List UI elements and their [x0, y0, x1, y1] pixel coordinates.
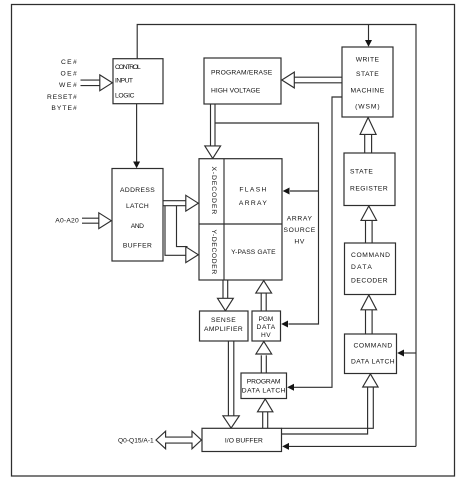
svg-text:LOGIC: LOGIC: [115, 92, 135, 99]
block: PGM DATA HV: [252, 311, 281, 341]
svg-text:X-DECODER: X-DECODER: [210, 167, 217, 215]
block: CONTROL INPUT LOGIC: [113, 59, 163, 104]
svg-text:AND: AND: [131, 223, 145, 230]
block: STATE REGISTER: [344, 153, 395, 206]
bidirectional data bus arrow at I/O BUFFER left: [156, 431, 201, 449]
svg-text:AMPLIFIER: AMPLIFIER: [204, 326, 243, 333]
arrow into PGM DATA HV right edge: [281, 321, 288, 328]
bus arrow I/O BUFFER up to PROGRAM DATA LATCH: [262, 412, 264, 429]
block: WRITE STATE MACHINE (WSM): [342, 47, 393, 117]
bus arrow WSM to PROGRAM/ERASE HIGH VOLTAGE: [294, 76, 342, 78]
input arrow A0-A20 into ADDRESS LATCH: [82, 217, 100, 219]
svg-text:LATCH: LATCH: [126, 203, 149, 210]
junction arrow into FLASH ARRAY right edge: [290, 190, 319, 192]
bus arrow PROGRAM DATA LATCH up to PGM DATA HV: [260, 355, 262, 373]
svg-text:INPUT: INPUT: [115, 77, 133, 84]
svg-text:FLASH: FLASH: [239, 186, 266, 193]
bus arrow COMMAND DATA LATCH up to COMMAND DATA DECODER: [365, 310, 367, 334]
svg-text:CE#: CE#: [61, 59, 77, 66]
wire: branch down into WSM top: [368, 25, 370, 42]
svg-text:Q0-Q15/A-1: Q0-Q15/A-1: [118, 437, 154, 444]
block: COMMAND DATA LATCH: [345, 334, 397, 374]
wire: PROGRAM/ERASE HV branch to FLASH ARRAY and PGM DATA HV: [215, 123, 319, 324]
svg-text:REGISTER: REGISTER: [350, 185, 388, 192]
svg-text:DATA LATCH: DATA LATCH: [242, 388, 286, 395]
wire: arrow into I/O BUFFER right edge: [288, 445, 416, 447]
block: decoder/array grid outer: [199, 159, 282, 280]
bus SENSE AMPLIFIER down to I/O BUFFER: [227, 341, 229, 416]
svg-text:PROGRAM: PROGRAM: [247, 378, 281, 385]
svg-text:DATA: DATA: [257, 324, 276, 331]
bus arrow COMMAND DATA DECODER up to STATE REGISTER: [365, 220, 367, 243]
bus arrow Y-PASS GATE down to SENSE AMPLIFIER: [222, 280, 224, 299]
svg-text:ARRAY: ARRAY: [239, 200, 267, 207]
svg-text:HIGH VOLTAGE: HIGH VOLTAGE: [211, 87, 261, 94]
svg-text:DECODER: DECODER: [351, 278, 388, 285]
svg-text:COMMAND: COMMAND: [354, 343, 393, 350]
bus arrow ADDRESS LATCH to X-DECODER: [163, 200, 187, 202]
block: PROGRAM DATA LATCH: [241, 373, 287, 399]
bus arrow PROGRAM/ERASE HV down to X-DECODER: [210, 104, 212, 146]
wire: WSM left side down to PROGRAM DATA LATCH: [294, 97, 342, 387]
bus arrow PGM DATA HV up to Y-PASS GATE: [260, 293, 262, 311]
block: PROGRAM/ERASE HIGH VOLTAGE: [204, 58, 281, 104]
bus arrow I/O BUFFER right and up to COMMAND DATA LATCH: [282, 387, 374, 428]
svg-text:PGM: PGM: [259, 316, 274, 323]
svg-text:ARRAY: ARRAY: [287, 215, 313, 222]
wire: CONTROL INPUT LOGIC to ADDRESS LATCH: [136, 104, 138, 163]
svg-text:MACHINE: MACHINE: [351, 88, 385, 95]
wire: branch arrow into COMMAND DATA LATCH right edge: [403, 352, 416, 354]
svg-text:HV: HV: [294, 239, 304, 246]
svg-text:ADDRESS: ADDRESS: [120, 187, 155, 194]
svg-text:I/O BUFFER: I/O BUFFER: [225, 438, 263, 445]
svg-text:DATA LATCH: DATA LATCH: [351, 359, 395, 366]
svg-text:SENSE: SENSE: [211, 317, 236, 324]
divider between X/Y rows: [199, 223, 282, 225]
svg-text:STATE: STATE: [356, 71, 379, 78]
svg-text:DATA: DATA: [351, 264, 372, 271]
block: SENSE AMPLIFIER: [200, 311, 249, 341]
svg-text:COMMAND: COMMAND: [351, 252, 390, 259]
svg-text:A0-A20: A0-A20: [55, 218, 79, 225]
svg-text:SOURCE: SOURCE: [284, 227, 316, 234]
wire: control line from CONTROL INPUT LOGIC top, across top, down right side: [137, 25, 416, 447]
svg-text:CONTROL: CONTROL: [115, 64, 141, 71]
block: I/O BUFFER: [202, 428, 282, 451]
block: COMMAND DATA DECODER: [345, 243, 396, 295]
svg-text:BUFFER: BUFFER: [123, 243, 152, 250]
svg-text:RESET#: RESET#: [47, 94, 77, 101]
svg-text:Y-DECODER: Y-DECODER: [210, 230, 217, 275]
svg-text:PROGRAM/ERASE: PROGRAM/ERASE: [211, 70, 273, 77]
svg-text:WE#: WE#: [59, 82, 77, 89]
svg-text:BYTE#: BYTE#: [51, 105, 77, 112]
svg-text:OE#: OE#: [61, 71, 78, 78]
svg-text:WRITE: WRITE: [356, 57, 380, 64]
divider between decoders and array: [223, 159, 225, 280]
svg-text:(WSM): (WSM): [355, 103, 380, 110]
block: ADDRESS LATCH AND BUFFER: [112, 169, 163, 262]
bus arrow ADDRESS LATCH branch to Y-DECODER: [165, 206, 188, 256]
svg-text:STATE: STATE: [350, 168, 373, 175]
bus arrow STATE REGISTER up to WSM: [364, 134, 366, 153]
svg-text:HV: HV: [261, 332, 271, 339]
input arrow CE/OE/WE/RESET/BYTE into CONTROL INPUT LOGIC: [81, 79, 100, 81]
svg-text:Y-PASS GATE: Y-PASS GATE: [231, 249, 276, 256]
